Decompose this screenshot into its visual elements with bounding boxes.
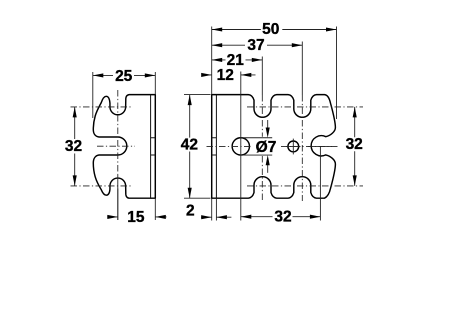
- svg-text:32: 32: [274, 208, 291, 225]
- left view outline: [93, 95, 155, 199]
- dimension 37: [212, 44, 303, 46]
- dimension 32 bottom: [241, 216, 321, 218]
- dimension 50: [212, 27, 337, 120]
- hole 1 (Ø7): [232, 138, 249, 155]
- right view outline: [212, 95, 336, 199]
- Ø7 tangent lines: [240, 138, 272, 155]
- svg-text:2: 2: [186, 202, 195, 219]
- svg-text:42: 42: [181, 136, 198, 153]
- notch extension line: [319, 146, 321, 220]
- hole 2 center cross: [286, 139, 301, 155]
- left view plate inner line: [150, 95, 152, 199]
- right view flange inner line: [215, 95, 217, 199]
- Ø7 upper arrow: [267, 120, 269, 133]
- left view hook center line bottom: [71, 185, 134, 187]
- right view valley 2 center line: [301, 42, 303, 96]
- dimension 32 right: [354, 107, 356, 186]
- hole 1 vertical extension line: [240, 72, 242, 221]
- svg-text:12: 12: [217, 67, 234, 84]
- right view valley 1 center line: [261, 57, 263, 96]
- svg-text:32: 32: [346, 136, 363, 153]
- svg-text:25: 25: [115, 68, 133, 85]
- dimension 15: [107, 189, 166, 221]
- dimension 42: [184, 95, 211, 199]
- svg-text:15: 15: [127, 209, 145, 226]
- dimension 21: [212, 59, 263, 61]
- hole 2: [288, 141, 299, 152]
- left view vertical center line: [117, 90, 119, 175]
- right view horizontal center line: [207, 145, 252, 147]
- notch horizontal center mark: [308, 145, 332, 147]
- dimension 32 left: [74, 107, 76, 186]
- left view hole tangent ticks: [151, 138, 156, 155]
- right view scallop center line bottom: [247, 185, 363, 187]
- right view flange ticks: [212, 138, 217, 155]
- left view hook center line top: [71, 106, 134, 108]
- svg-text:32: 32: [65, 138, 82, 155]
- svg-text:37: 37: [247, 37, 264, 54]
- dimension 25: [93, 72, 156, 118]
- svg-text:50: 50: [262, 21, 279, 38]
- dimension 2: [201, 198, 231, 220]
- Ø7 lower arrow: [267, 160, 269, 173]
- svg-text:Ø7: Ø7: [256, 139, 277, 156]
- right view scallop center line top: [247, 106, 363, 108]
- dimension 12: [202, 74, 256, 76]
- left view middle center line: [97, 145, 135, 147]
